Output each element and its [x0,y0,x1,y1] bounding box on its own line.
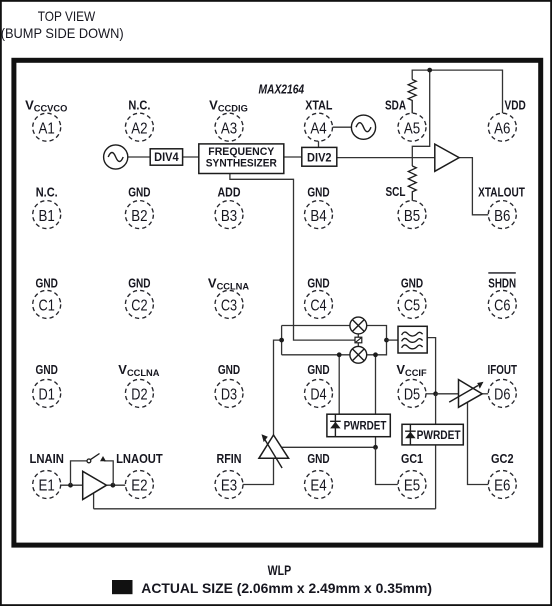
svg-text:E1: E1 [39,478,55,495]
wire: IF node to IF VGA input [436,393,459,395]
svg-text:GND: GND [401,275,423,290]
svg-text:D2: D2 [131,387,147,404]
svg-text:C5: C5 [404,298,420,315]
svg-text:D5: D5 [404,387,420,404]
svg-text:A2: A2 [131,120,147,137]
wire: buffer output to B6 XTALOUT [459,158,488,215]
LNA amplifier [83,471,107,499]
bump B1 (N.C.) [33,184,61,228]
svg-text:GND: GND [36,362,58,377]
bump D6 (IFOUT) [488,362,518,407]
wire: combiner to IF filter [387,339,399,341]
svg-text:PWRDET: PWRDET [344,420,387,433]
junction dot on VDD rail [427,68,432,73]
junction dot at Q mixer line (PWRDET feed) [373,352,378,357]
junction dot LNA input [68,483,73,488]
junction dot mixer combiner [384,338,389,343]
bump E3 (RFIN) [215,451,243,499]
svg-text:A4: A4 [310,120,326,137]
svg-text:SHDN: SHDN [488,275,516,290]
svg-text:IFOUT: IFOUT [488,362,518,377]
block DIV2 [302,147,337,166]
bump C3 (VCCLNA) [208,275,249,318]
svg-text:GND: GND [36,275,58,290]
power detector PWRDET2 [402,424,463,445]
wire: I mixer out to combiner [367,326,387,355]
svg-text:GC2: GC2 [491,451,514,466]
svg-text:A1: A1 [39,120,55,137]
bump C1 (GND) [33,275,61,318]
svg-text:GND: GND [128,275,150,290]
mixer M1 (I) [350,317,367,334]
svg-text:LNAIN: LNAIN [29,451,64,466]
bump D5 (VCCIF) [396,362,427,407]
bump D2 (VCCLNA) [118,362,159,407]
junction dot LNA output [111,483,116,488]
bump B3 (ADD) [215,184,243,228]
svg-text:XTAL: XTAL [305,97,332,112]
wire: DIV2 to xtal buffer input [337,157,435,159]
oscillator symbol (reference osc) [104,145,128,169]
resistor R1 (SDA pullup) [408,80,416,114]
wire: gain node down to E5 GC1 [376,447,398,484]
svg-text:A3: A3 [221,120,237,137]
junction dot at Q mixer line (diode tap) [337,352,342,357]
bump B5 (SCL) [386,184,427,228]
svg-text:A6: A6 [494,120,510,137]
bump B2 (GND) [125,184,153,228]
svg-text:SCL: SCL [386,184,406,199]
wire: mixer input tee (I/Q split) [281,326,283,355]
wire: A4 down to DIV2 [318,141,320,147]
bump E5 (GC1) [398,451,426,499]
IF bandpass filter block [398,326,427,353]
bump D1 (GND) [33,362,61,407]
bump E6 (GC2) [488,451,516,499]
svg-text:VDD: VDD [505,97,526,112]
wire: E1 LNAIN to LNA input [61,484,83,486]
wire: IF node down through PWRDET2 to bottom rail [435,394,437,509]
wire: LO from synthesizer down to quadrature phase shifter [230,174,355,341]
svg-text:PWRDET: PWRDET [417,429,461,442]
svg-text:GND: GND [307,275,329,290]
bump D3 (GND) [215,362,243,407]
bump E1 (LNAIN) [29,451,64,499]
chip package outline (WLP top view) [14,60,541,545]
svg-text:D1: D1 [39,387,55,404]
wire: Q mixer line to PWRDET1 diode [338,355,340,414]
svg-text:GC1: GC1 [401,451,423,466]
svg-text:WLP: WLP [268,563,292,578]
svg-text:E2: E2 [131,478,147,495]
svg-text:(BUMP SIDE DOWN): (BUMP SIDE DOWN) [1,25,124,41]
bump B4 (GND) [305,184,333,228]
wire: synthesizer to DIV2 [284,156,302,158]
svg-text:E5: E5 [404,478,420,495]
svg-text:E4: E4 [310,478,326,495]
svg-text:ADD: ADD [218,184,241,199]
svg-text:GND: GND [218,362,240,377]
svg-text:FREQUENCY: FREQUENCY [208,146,274,158]
bump A4 (XTAL) [305,97,333,141]
svg-text:E3: E3 [221,478,237,495]
wire: VDD top rail [412,70,502,113]
wire: filter output to IF node [427,338,435,394]
svg-text:D4: D4 [310,387,326,404]
mixer M2 (Q) [350,346,367,363]
bump E2 (LNAOUT) [116,451,163,499]
bump A3 (VCCDIG) [209,97,248,141]
svg-text:B3: B3 [221,208,237,225]
LNA bypass switch [87,454,100,463]
wire: D5 VCCIF to IF node [426,393,436,395]
block FREQUENCY SYNTHESIZER [199,144,284,174]
wire: A4 XTAL to crystal oscillator symbol [333,126,352,128]
power detector PWRDET1 [327,414,390,437]
wire: RF feed from RF VGA up to mixer splitter [274,340,282,435]
bump E4 (GND) [305,451,333,499]
svg-text:A5: A5 [404,120,420,137]
bump C6 (SHDN) [488,273,516,319]
IF variable gain amp (IFOUT VGA) [449,380,482,408]
bump A6 (VDD) [488,97,526,141]
junction dot RF splitter [279,338,284,343]
wire: RF VGA gain line to node [281,446,376,448]
junction dot gain node [373,445,378,450]
wire: LNA output to E2 LNAOUT [107,484,126,486]
bump C5 (GND) [398,275,426,318]
svg-text:B1: B1 [39,208,55,225]
wire: E6 GC2 up to IF VGA gain pin [468,402,489,485]
bump A2 (N.C.) [125,97,153,141]
wire: splitter to I mixer [282,325,350,327]
bump A1 (VCCVCO) [25,97,67,141]
svg-text:LNAOUT: LNAOUT [116,451,163,466]
svg-text:D6: D6 [494,387,510,404]
svg-text:C6: C6 [494,298,510,315]
wire: bottom rail from LNA to PWRDET2 [94,508,436,510]
svg-text:DIV4: DIV4 [154,151,179,164]
svg-text:GND: GND [307,184,329,199]
svg-text:C2: C2 [131,298,147,315]
wire: E3 RFIN to RF VGA [243,458,273,484]
svg-text:SYNTHESIZER: SYNTHESIZER [206,158,277,170]
svg-text:B6: B6 [494,208,510,225]
block DIV4 [150,149,182,165]
svg-text:C4: C4 [310,298,326,315]
resistor R2 (SCL pullup) [408,166,416,201]
svg-text:B5: B5 [404,208,420,225]
bump B6 (XTALOUT) [478,185,525,229]
svg-text:N.C.: N.C. [128,97,150,112]
svg-text:N.C.: N.C. [36,184,58,199]
svg-text:ACTUAL SIZE (2.06mm x 2.49mm x: ACTUAL SIZE (2.06mm x 2.49mm x 0.35mm) [141,581,432,596]
crystal oscillator symbol at XTAL [351,115,375,139]
footer actual-size swatch [112,580,133,594]
bump D4 (GND) [305,362,333,407]
svg-text:TOP VIEW: TOP VIEW [38,8,96,24]
svg-text:D3: D3 [221,387,237,404]
svg-text:MAX2164: MAX2164 [259,82,305,96]
wire: phase shifter to Q mixer stub [357,343,359,347]
svg-text:C3: C3 [221,298,237,315]
svg-text:DIV2: DIV2 [307,152,332,165]
bump C2 (GND) [125,275,153,318]
svg-text:XTALOUT: XTALOUT [478,185,525,200]
junction dot IF node [433,391,438,396]
wire: phase shifter to I mixer stub [357,334,359,337]
wire: rail to SCL pullup (down, jog left) [412,70,429,166]
svg-text:SDA: SDA [385,97,406,112]
svg-text:E6: E6 [494,478,510,495]
svg-text:GND: GND [307,362,329,377]
svg-text:C1: C1 [39,298,55,315]
wire: DIV4 to frequency synthesizer [183,156,199,158]
xtal buffer amplifier U1 [435,144,459,171]
svg-text:RFIN: RFIN [217,451,242,466]
wire: IF VGA output to D6 IFOUT [482,393,488,395]
quadrature phase shifter (0/90) [355,337,362,343]
svg-text:B4: B4 [310,208,326,225]
svg-text:GND: GND [307,451,329,466]
svg-text:GND: GND [128,184,150,199]
RF variable gain amp (RFIN VGA) [259,435,289,468]
wire: reference osc to DIV4 [128,156,150,158]
svg-text:B2: B2 [131,208,147,225]
bump C4 (GND) [305,275,333,318]
wire: LNA bypass switch branch (output side) [104,461,113,485]
wire: splitter to Q mixer [282,354,350,356]
wire: Q mixer line down through PWRDET1 to gain node [375,355,377,448]
wire: LNA bypass switch branch (input side) [71,461,88,485]
wire: LNA output tap down to bottom rail [93,493,95,509]
bump A5 (SDA) [385,97,426,141]
